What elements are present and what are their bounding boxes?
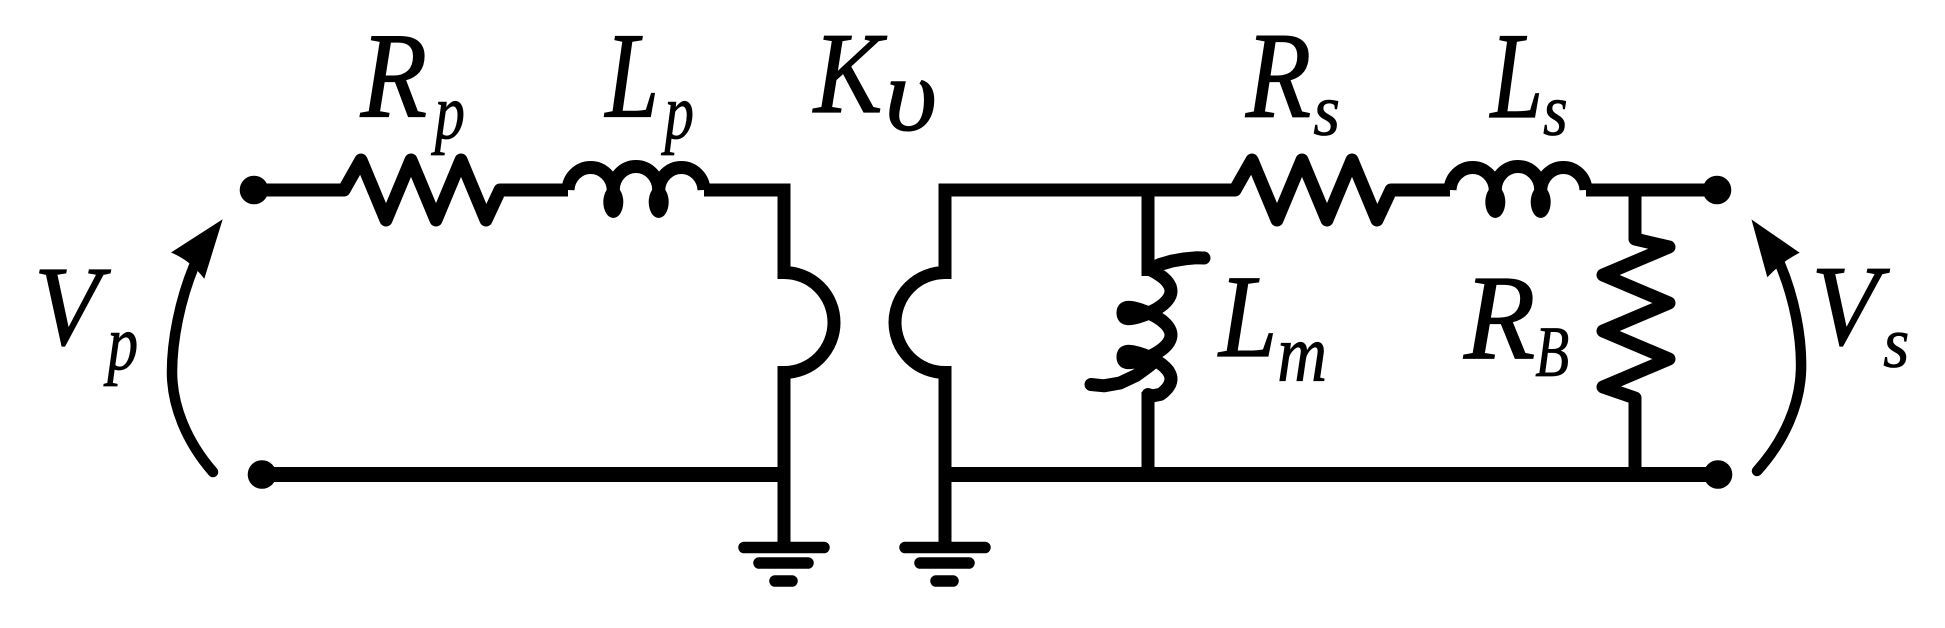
V_p polarity arc	[172, 266, 213, 472]
svg-text:s: s	[1543, 70, 1568, 151]
svg-text:R: R	[1463, 250, 1535, 384]
wire: bottom rail (secondary side)	[945, 467, 1718, 482]
V_p arrowhead	[171, 219, 223, 278]
ground symbol (primary): bar 1	[744, 542, 824, 554]
ground symbol (primary): bar 2	[759, 557, 808, 569]
V_s polarity arc	[1757, 264, 1801, 471]
svg-text:B: B	[1535, 312, 1569, 391]
svg-text:p: p	[660, 70, 694, 157]
svg-text:m: m	[1277, 310, 1327, 400]
svg-text:V: V	[34, 243, 111, 369]
svg-text:K: K	[812, 9, 887, 138]
transformer secondary winding K_v (right half-core) with ground lead	[895, 184, 945, 548]
wire: R_s to L_s	[1391, 184, 1450, 197]
svg-text:s: s	[1313, 71, 1340, 151]
ground symbol (secondary): bar 2	[920, 557, 969, 569]
node: secondary - terminal dot	[1704, 460, 1733, 489]
wire: L_p to transformer primary corner	[704, 184, 784, 197]
svg-text:s: s	[1883, 304, 1909, 384]
resistor R_p	[344, 160, 500, 220]
inductor L_p	[568, 166, 704, 190]
wire: L_m branch bottom segment	[1142, 392, 1155, 475]
wire: secondary top rail to R_s	[945, 184, 1235, 197]
wire: L_m branch top segment	[1142, 190, 1155, 276]
svg-text:R: R	[360, 9, 427, 144]
inductor L_m bottom tail flourish	[1091, 364, 1152, 386]
resistor R_s	[1235, 160, 1391, 220]
ground symbol (secondary): bar 3	[936, 575, 953, 587]
node: primary - terminal dot	[248, 460, 277, 489]
wire: L_s to V_s+ terminal	[1586, 184, 1717, 197]
svg-text:L: L	[604, 8, 659, 143]
inductor L_s	[1450, 166, 1586, 190]
svg-text:R: R	[1245, 7, 1311, 144]
ground symbol (primary): bar 3	[775, 575, 792, 587]
V_s arrowhead	[1752, 220, 1800, 278]
svg-text:L: L	[1217, 253, 1277, 383]
svg-text:L: L	[1489, 7, 1543, 144]
wire: R_B branch bottom segment	[1629, 398, 1642, 475]
wire: R_p to L_p	[500, 184, 568, 197]
node: secondary + terminal dot	[1703, 176, 1732, 205]
wire: bottom rail (primary side)	[262, 467, 784, 482]
wire: top left from V_p+ to R_p	[254, 184, 344, 197]
svg-text:p: p	[430, 69, 465, 156]
resistor R_B (vertical)	[1603, 239, 1669, 398]
inductor L_m (vertical curly coil)	[1123, 258, 1204, 396]
ground symbol (secondary): bar 1	[905, 542, 985, 554]
node: primary + terminal dot	[240, 176, 269, 205]
svg-text:υ: υ	[885, 37, 937, 152]
transformer primary winding K_v (left half-core) with ground lead	[784, 184, 834, 548]
svg-text:p: p	[103, 301, 138, 388]
wire: R_B branch top segment	[1629, 190, 1642, 239]
svg-text:V: V	[1811, 244, 1890, 370]
